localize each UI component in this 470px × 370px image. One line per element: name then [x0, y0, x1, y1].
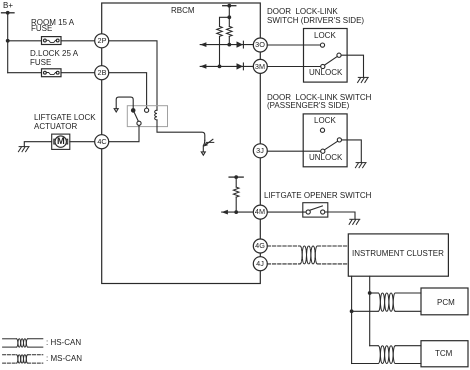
arrow down open (relay)	[114, 109, 118, 112]
INSTRUMENT CLUSTER box	[348, 234, 448, 276]
relay box	[127, 106, 167, 127]
resistor left (to 3M)	[217, 26, 223, 36]
junction dot on 4M bar	[234, 175, 238, 179]
relay contact circle lower	[137, 121, 141, 125]
connector 4J	[253, 257, 267, 271]
arrow left (3M net)	[200, 64, 206, 69]
label TCM	[435, 350, 452, 358]
power bar top-right	[223, 5, 236, 7]
wire to TCM pair top	[370, 345, 379, 347]
junction dot 3O	[227, 43, 231, 47]
connector 4C	[95, 135, 109, 149]
wire pair to cluster dashed top	[317, 245, 348, 247]
UNLOCK contact circle (passenger)	[321, 149, 325, 153]
HS-CAN twisted pair (TCM)	[378, 346, 395, 364]
opener contact circles	[306, 210, 310, 214]
wire TCM pair to box bottom	[395, 363, 421, 365]
liftgate opener switch box	[303, 203, 328, 217]
connector 4M	[253, 205, 267, 219]
door lock-link switch driver box	[304, 29, 348, 83]
label D.LOCK 25 A FUSE	[30, 50, 78, 58]
wire to PCM pair bottom	[352, 310, 379, 312]
pin label 2B	[97, 69, 106, 76]
label MS-CAN	[46, 355, 82, 363]
wire 2P to relay coil	[109, 41, 157, 110]
connector 3O	[253, 38, 267, 52]
wire resistor to 3O line	[228, 36, 230, 44]
junction dot 4M	[234, 210, 238, 214]
wire common to ground (driver)	[341, 55, 363, 77]
connector 3J	[253, 144, 267, 158]
opener switch blade	[310, 206, 322, 210]
wire to ROOM fuse	[8, 40, 42, 42]
relay common junction dot	[131, 108, 136, 113]
connector 2B	[95, 66, 109, 80]
wire B+ vertical	[7, 13, 9, 73]
3O net wire	[200, 44, 253, 46]
junction dot branch	[227, 15, 231, 19]
wire to TCM pair bottom	[352, 363, 379, 365]
connector 2P	[95, 34, 109, 48]
wire cluster down left	[351, 276, 353, 363]
wire motor to ground	[24, 142, 51, 147]
label UNLOCK passenger	[309, 154, 342, 162]
pin label 4J	[256, 260, 264, 267]
junction dot on bar	[227, 4, 231, 8]
junction dot PCM top	[368, 291, 372, 295]
wire 3M to UNLOCK contact	[267, 66, 320, 68]
junction dot 3M	[218, 65, 222, 69]
wire 3O to LOCK contact	[267, 44, 320, 46]
LOCK contact circle (driver)	[320, 43, 324, 47]
common contact circle (passenger)	[337, 138, 341, 142]
wire bar to resistor	[235, 177, 237, 187]
switch blade (passenger)	[325, 141, 338, 150]
ground (driver switch)	[358, 77, 369, 82]
wire to D.LOCK fuse	[8, 72, 42, 74]
label LOCK driver	[314, 32, 336, 40]
label HS-CAN	[46, 339, 81, 347]
3M net wire	[200, 65, 253, 67]
resistor right (to 3O)	[227, 26, 233, 36]
label PCM	[437, 299, 455, 307]
common contact circle (driver)	[337, 53, 341, 57]
label UNLOCK driver	[309, 69, 342, 77]
ground (passenger switch)	[355, 163, 366, 168]
fuse D.LOCK 25 A	[42, 69, 62, 77]
MS-CAN twisted pair	[300, 246, 317, 264]
wire relay common to internal arrow	[116, 97, 133, 110]
label LIFTGATE LOCK ACTUATOR	[34, 114, 96, 122]
pin label 3J	[256, 147, 264, 154]
relay contact circle upper	[145, 108, 149, 112]
pin label 2P	[97, 37, 106, 44]
wire fuse to 2B	[61, 72, 95, 74]
wire pair to cluster dashed bottom	[317, 263, 348, 265]
TCM box	[421, 341, 468, 367]
connector 3M	[253, 59, 267, 73]
fuse ROOM 15 A	[42, 37, 62, 45]
solid state switch symbol	[201, 139, 214, 155]
label DOOR LOCK-LINK SWITCH (DRIVER'S SIDE)	[267, 8, 338, 16]
label LIFTGATE OPENER SWITCH	[264, 192, 371, 200]
LOCK contact circle (passenger, floating)	[320, 128, 324, 132]
wire coil to switch symbol	[157, 120, 205, 140]
arrow left (4M net)	[222, 210, 228, 215]
door lock-link switch passenger box	[303, 114, 347, 167]
ground (actuator)	[18, 147, 29, 152]
ground (opener switch)	[349, 219, 360, 224]
legend MS-CAN symbol	[3, 355, 43, 363]
wire 4G dashed (MS-CAN)	[267, 245, 300, 247]
wire PCM pair to box bottom	[395, 310, 421, 312]
HS-CAN twisted pair (PCM)	[378, 293, 395, 311]
wire resistor to 4M line	[235, 197, 237, 212]
wire 3J to UNLOCK contact	[267, 150, 320, 152]
wire motor to 4C	[70, 141, 95, 143]
PCM box	[421, 288, 468, 315]
wire 4M to opener switch	[267, 211, 306, 213]
wire cluster down right	[369, 276, 371, 346]
wire PCM pair to box top	[395, 292, 421, 294]
wire opener to ground	[325, 212, 355, 219]
label ROOM 15 A FUSE	[31, 19, 74, 27]
wire 4J dashed (MS-CAN)	[267, 263, 300, 265]
wire bar down	[228, 6, 230, 27]
resistor 4M	[233, 187, 239, 197]
wire to PCM pair top	[370, 292, 379, 294]
wire TCM pair to box top	[395, 345, 421, 347]
junction dot on B+ bar	[6, 11, 10, 15]
junction dot PCM bottom	[350, 309, 354, 313]
pin label 4C	[97, 138, 106, 145]
wire branch left down	[220, 17, 230, 26]
wire fuse to 2P	[61, 40, 95, 42]
wire common to ground (passenger)	[342, 140, 362, 163]
arrow left (3O net)	[200, 42, 206, 47]
wire relay contact to 4C	[109, 125, 139, 141]
wire resistor to 3M line	[219, 36, 221, 66]
relay movable blade	[133, 111, 138, 122]
label LOCK passenger	[314, 117, 336, 125]
pin label 3O	[255, 41, 265, 48]
pin label 3M	[255, 63, 265, 70]
label B+	[3, 2, 13, 10]
4M net wire	[222, 211, 254, 213]
connector 4G	[253, 239, 267, 253]
diode 3M	[237, 63, 244, 70]
UNLOCK contact circle (driver)	[321, 64, 325, 68]
relay coil	[155, 110, 157, 120]
power bar 4M	[229, 176, 243, 178]
label DOOR LOCK-LINK SWITCH (PASSENGER'S SIDE)	[267, 94, 371, 102]
label RBCM	[171, 7, 195, 15]
switch blade (driver)	[325, 57, 338, 66]
diode 3O	[237, 41, 244, 48]
pin label 4M	[255, 208, 265, 215]
pin label 4G	[255, 242, 265, 249]
junction dot to ROOM fuse	[6, 39, 10, 43]
motor M letter	[57, 137, 65, 146]
battery terminal bar	[2, 12, 15, 14]
motor M1 liftgate lock actuator	[52, 134, 70, 149]
label INSTRUMENT CLUSTER	[352, 250, 444, 258]
RBCM box	[102, 3, 261, 284]
legend HS-CAN symbol	[3, 339, 43, 347]
wire 2B to relay contact	[109, 73, 147, 108]
